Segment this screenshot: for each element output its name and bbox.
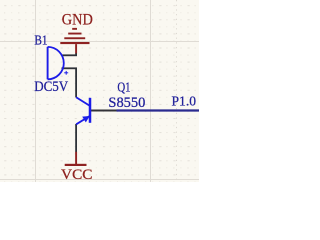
svg-text:GND: GND xyxy=(62,12,93,29)
svg-text:S8550: S8550 xyxy=(108,95,145,111)
svg-text:VCC: VCC xyxy=(61,167,93,182)
svg-text:DC5V: DC5V xyxy=(34,79,68,95)
svg-text:Q1: Q1 xyxy=(117,81,130,96)
svg-text:P1.0: P1.0 xyxy=(172,95,197,110)
svg-text:B1: B1 xyxy=(34,34,47,49)
